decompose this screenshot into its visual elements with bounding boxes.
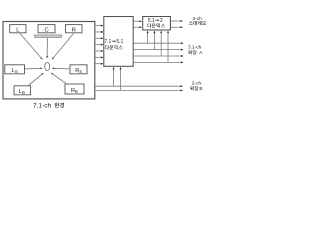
svg-text:S: S (15, 69, 18, 74)
arrow Lb to listener (29, 74, 43, 86)
speaker Lb (14, 86, 31, 95)
bottom 2-ch wires to extension B (95, 85, 181, 87)
svg-text:7.1: 7.1 (104, 39, 111, 45)
hangul daunmikseu (105, 45, 123, 50)
arrow L to listener (20, 34, 41, 59)
svg-text:C: C (45, 27, 49, 33)
wire (134, 61, 182, 63)
arrow Rs to listener (54, 67, 70, 70)
speaker Rb (65, 84, 84, 94)
arrow C to listener (46, 38, 48, 56)
svg-text:5.1: 5.1 (148, 18, 155, 24)
tap up into 5.1-to-2 box (160, 33, 162, 56)
speaker C (38, 25, 55, 33)
room box: 7.1-ch listening environment (3, 22, 95, 99)
outputs to 2-ch stereo (171, 20, 181, 22)
wire (134, 55, 182, 57)
tap up into 5.1-to-2 box (167, 33, 169, 63)
listener (45, 62, 50, 70)
tap up into 5.1-to-2 box (153, 33, 155, 50)
taps up into 7.1-to-5.1 box (113, 69, 115, 86)
svg-text:2-ch: 2-ch (192, 80, 202, 86)
caption hangul hwan-gyeong (55, 103, 65, 108)
speaker L (10, 25, 26, 33)
svg-text:2: 2 (160, 18, 163, 24)
downmix box 7.1 to 5.1 (104, 17, 133, 67)
arrow Rb to listener (52, 74, 66, 84)
svg-text:B: B (199, 86, 202, 92)
wire (134, 42, 182, 44)
svg-text:B: B (22, 90, 25, 95)
speaker Ls (5, 65, 25, 74)
arrows downmix1 to downmix2 (134, 20, 140, 22)
7.1-ch stub arrows from room to downmix (95, 25, 101, 27)
LFE bar under C (35, 35, 62, 38)
speaker Rs (70, 65, 87, 74)
downmix box 5.1 to 2 (143, 17, 171, 31)
arrow R to listener (53, 34, 73, 59)
speaker R (66, 25, 83, 33)
svg-text:A: A (199, 50, 203, 56)
svg-text:7.1-ch: 7.1-ch (33, 103, 51, 110)
wire (134, 49, 182, 51)
tap up into 5.1-to-2 box (147, 33, 149, 44)
svg-text:R: R (72, 27, 76, 33)
svg-text:B: B (75, 89, 78, 94)
hangul daunmikseu (147, 23, 165, 28)
svg-text:5.1: 5.1 (116, 39, 123, 45)
svg-text:2-ch: 2-ch (193, 16, 203, 22)
arrow Ls to listener (25, 67, 41, 70)
svg-text:S: S (79, 69, 82, 74)
svg-text:3.1-ch: 3.1-ch (188, 44, 202, 50)
